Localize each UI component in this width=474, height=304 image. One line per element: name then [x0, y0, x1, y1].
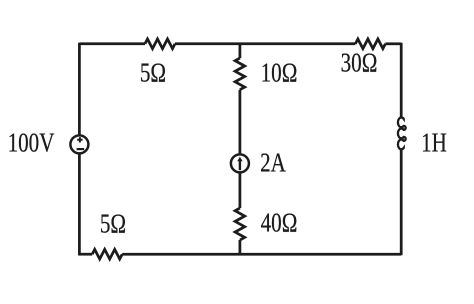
label 5ohm top [140, 59, 166, 86]
label 2A [260, 149, 286, 176]
label 1H [421, 129, 447, 156]
wire bottom-left stub [78, 253, 92, 256]
resistor R3 10ohm zigzag [235, 58, 245, 90]
resistor R4 30ohm zigzag [355, 39, 385, 49]
wire right upper [400, 43, 403, 118]
label 100V [8, 130, 55, 157]
current source arrow shaft [239, 159, 241, 170]
label 10ohm [260, 59, 297, 86]
voltage source minus sign [77, 148, 85, 150]
label 40ohm [261, 210, 298, 237]
resistor R5 40ohm zigzag [235, 208, 245, 240]
wire top-right segment [385, 42, 401, 45]
current source I1 2A circle [231, 154, 249, 172]
resistor R1 5ohm top zigzag [145, 39, 175, 49]
resistor R2 5ohm bottom zigzag [92, 249, 122, 259]
wire middle lower stub [239, 240, 242, 254]
label 30ohm [341, 49, 378, 76]
wire middle between current source and 40ohm [239, 173, 242, 208]
inductor L1 1H coil [398, 117, 406, 149]
wire middle upper stub [239, 44, 242, 58]
label 5ohm bottom [99, 210, 125, 237]
wire top-middle segment [175, 42, 355, 45]
current source arrowhead [237, 157, 242, 162]
wire bottom-middle segment [122, 253, 401, 256]
voltage source plus sign [77, 137, 82, 142]
wire left lower [78, 154, 81, 255]
wire top-left segment [79, 42, 145, 45]
wire middle between 10ohm and current source [239, 90, 242, 154]
wire right lower [400, 149, 403, 255]
wire left upper [78, 43, 81, 135]
voltage source V1 100V circle [70, 135, 88, 153]
